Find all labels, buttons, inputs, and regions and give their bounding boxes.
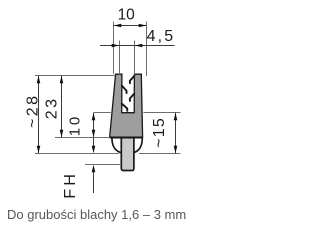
dimension ~15: top arrow: [174, 113, 178, 121]
dimension 4,5: line: [100, 45, 175, 47]
dimension 10 top: left arrow: [114, 24, 122, 28]
dimension 10 top: line: [114, 25, 147, 27]
right wall tooth 2: [130, 94, 134, 101]
dimension 10 left: line: [93, 113, 95, 138]
svg-text:23: 23: [43, 99, 60, 119]
body bottom edge emphasis: [110, 137, 142, 139]
dimension FH: tail line: [93, 172, 95, 194]
dimension 10 left: bottom arrow: [92, 130, 96, 138]
dimension 23: bottom arrow: [60, 130, 64, 138]
dimension ~28: top arrow: [37, 76, 41, 84]
extension line slot right (x=134.5): [134, 41, 136, 75]
svg-text:~28: ~28: [24, 96, 41, 128]
dimension ~15: line: [175, 113, 177, 154]
dimension ~28: bottom arrow: [37, 146, 41, 154]
svg-text:~15: ~15: [151, 118, 168, 148]
ref line wall tops y=75.5: [35, 75, 115, 77]
left wall tooth 1: [122, 86, 127, 93]
dimension ~28: line: [38, 76, 40, 154]
extension line left outer (x=113.5): [113, 22, 115, 75]
dimension FH: bottom arrow (outside, pointing up): [92, 165, 96, 173]
dimension 4,5: left arrow (outside, pointing right): [112, 44, 120, 48]
dimension 4,5: right arrow (outside, pointing left): [135, 44, 143, 48]
svg-text:4,5: 4,5: [147, 28, 174, 45]
ref line body bottom y=137.5: [55, 137, 110, 139]
ref line arc bottom right y=153.5: [139, 153, 181, 155]
ref line arc bottom left y=153.5: [35, 153, 119, 155]
extension line right outer (x=146.5): [146, 22, 148, 77]
dimension 23: top arrow: [60, 76, 64, 84]
ref line slot floor right y=112.5: [144, 112, 181, 114]
dimension 23: line: [61, 76, 63, 138]
extension line slot left (x=119.5): [119, 41, 121, 75]
left wall tooth 2: [122, 104, 128, 111]
dimension 10 top: right arrow: [139, 24, 147, 28]
dimension FH: top arrow (outside, pointing down): [92, 146, 96, 154]
dimension ~15: bottom arrow: [174, 146, 178, 154]
right wall tooth 1: [130, 76, 135, 83]
svg-text:10: 10: [67, 117, 84, 136]
profile body with clamping walls (dark grey): [110, 74, 143, 137]
svg-text:Do grubości blachy 1,6 – 3 mm: Do grubości blachy 1,6 – 3 mm: [7, 207, 186, 222]
svg-text:FH: FH: [62, 174, 79, 199]
dimension 10 left: top arrow: [92, 113, 96, 121]
ref line FH bottom y=164.5: [85, 164, 121, 166]
U-arc spring clip below body: [112, 138, 142, 154]
stem foot (light grey, rounded bottom): [121, 138, 134, 171]
ref line slot floor left y=112.5: [94, 112, 111, 114]
dimension FH: stub line: [93, 138, 95, 147]
svg-text:10: 10: [118, 7, 136, 24]
